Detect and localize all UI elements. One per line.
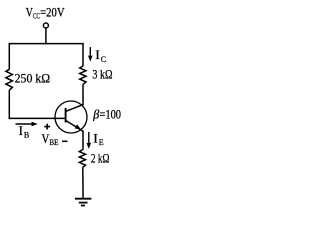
- svg-text:E: E: [99, 138, 104, 147]
- svg-text:=20V: =20V: [40, 4, 65, 19]
- wire Vcc stub: [45, 28, 47, 44]
- transistor Q1 base bar: [65, 108, 67, 123]
- svg-text:=100: =100: [100, 107, 122, 122]
- current arrow IE: [88, 132, 90, 144]
- Vcc terminal node: [43, 23, 48, 28]
- resistor R3 2 kOhm: [79, 149, 85, 167]
- wire left upper: [8, 44, 10, 70]
- wire collector vertical: [82, 84, 84, 105]
- svg-text:CC: CC: [33, 11, 40, 20]
- svg-text:2 kΩ: 2 kΩ: [91, 150, 110, 165]
- current arrow IC: [89, 47, 91, 57]
- polarity minus VBE: [62, 141, 67, 143]
- svg-text:I: I: [93, 130, 97, 145]
- transistor Q1 collector lead: [66, 104, 84, 111]
- wire emitter lower: [82, 168, 84, 200]
- svg-text:3 kΩ: 3 kΩ: [92, 67, 112, 82]
- wire emitter upper: [82, 131, 84, 150]
- transistor Q1 body circle: [55, 101, 87, 133]
- wire top horizontal: [9, 43, 84, 45]
- svg-text:C: C: [101, 55, 106, 64]
- ground symbol: [75, 199, 92, 206]
- wire left lower: [8, 90, 10, 119]
- svg-text:BE: BE: [49, 138, 58, 147]
- polarity plus VBE: [44, 124, 50, 130]
- transistor Q1 emitter lead: [66, 120, 83, 131]
- svg-text:I: I: [19, 123, 23, 138]
- svg-text:250 kΩ: 250 kΩ: [15, 70, 51, 85]
- current arrow IB: [16, 123, 33, 125]
- resistor R2 3 kOhm: [80, 66, 86, 84]
- resistor R1 250 kOhm: [6, 69, 12, 90]
- wire base horizontal: [9, 117, 66, 119]
- svg-text:I: I: [95, 47, 99, 62]
- svg-text:B: B: [24, 131, 29, 140]
- wire right upper: [82, 44, 84, 67]
